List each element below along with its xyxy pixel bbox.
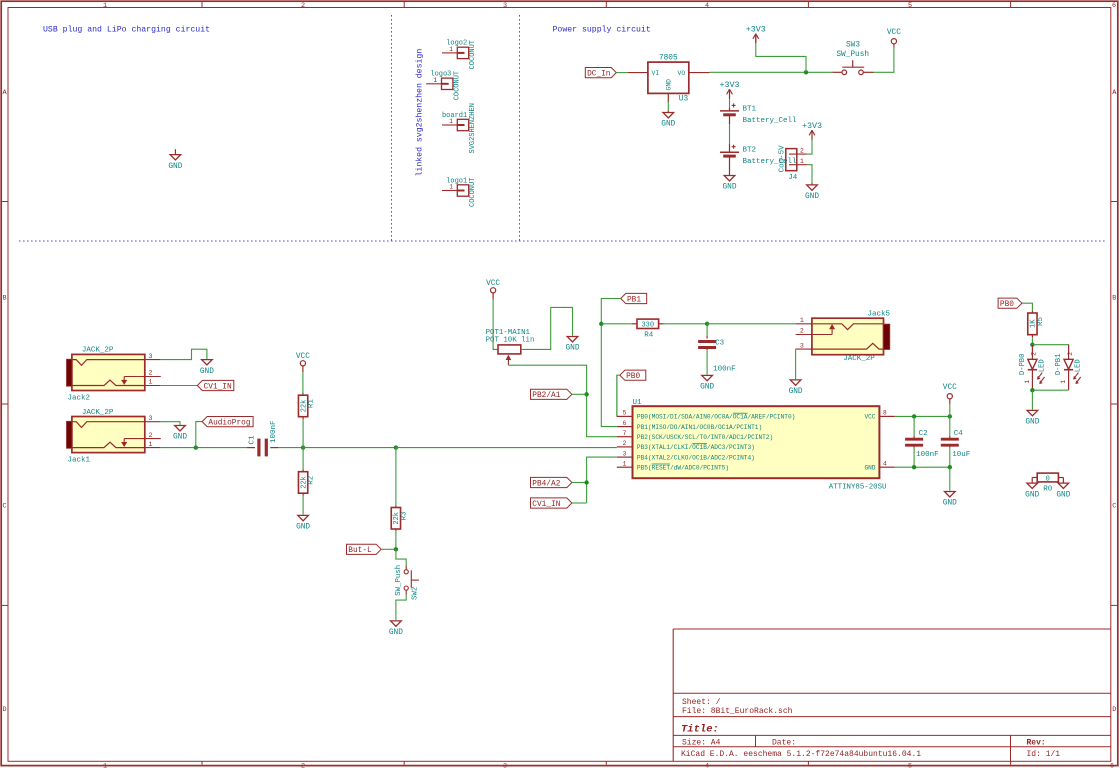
wire C3 to GND — [706, 350, 708, 375]
junction R4 node — [599, 322, 603, 326]
wire PB0 to R5 — [1022, 303, 1033, 311]
capacitor C3 100nF — [706, 324, 708, 336]
wire Jack1 pin3 to GND — [161, 422, 180, 425]
pin 2 of U1 (PB3) — [617, 446, 633, 448]
svg-text:+3V3: +3V3 — [802, 121, 822, 131]
svg-text:VCC: VCC — [296, 353, 310, 361]
svg-text:R0: R0 — [1043, 486, 1053, 494]
svg-text:3: 3 — [800, 342, 804, 349]
battery BT2 Battery_Cell — [720, 151, 739, 153]
svg-text:SVG2SHENZHEN: SVG2SHENZHEN — [469, 103, 477, 153]
switch SW2 SW_Push — [396, 549, 406, 565]
svg-text:1: 1 — [103, 2, 107, 10]
svg-text:PB4(XTAL2/CLKO/OC1B/ADC2/PCINT: PB4(XTAL2/CLKO/OC1B/ADC2/PCINT4) — [637, 454, 755, 461]
svg-text:3: 3 — [503, 2, 507, 10]
svg-text:4: 4 — [705, 2, 709, 10]
dashed section divider horizontal — [19, 240, 1107, 242]
pin 3 of U1 (PB4) — [617, 456, 633, 458]
svg-text:1: 1 — [800, 158, 804, 165]
junction But-L node — [394, 547, 398, 551]
wire BT1 to BT2 — [729, 115, 731, 124]
wire R1/R2 node to R3 node — [303, 447, 396, 449]
svg-text:6: 6 — [1110, 763, 1114, 768]
power symbol VCC (R1) — [300, 361, 305, 366]
overline RESET on U1 pin PB5 — [652, 463, 670, 465]
ground GND (U3) — [667, 111, 669, 113]
svg-text:LED: LED — [1038, 359, 1046, 372]
junction PB4/A2 node — [584, 480, 588, 484]
global label CV1_IN (bottom) — [531, 498, 572, 508]
svg-text:PB2/A1: PB2/A1 — [532, 392, 560, 400]
svg-text:GND: GND — [943, 500, 957, 508]
svg-text:Rev:: Rev: — [1027, 739, 1046, 748]
svg-text:logo1: logo1 — [446, 177, 467, 185]
junction C3 node — [705, 322, 709, 326]
svg-text:GND: GND — [296, 524, 310, 532]
overline OC1B on U1 pin PB3 — [692, 443, 707, 445]
svg-text:COCONUT: COCONUT — [469, 178, 477, 207]
svg-text:GND: GND — [789, 388, 803, 396]
svg-text:2: 2 — [800, 147, 804, 154]
global label AudioProg — [202, 417, 253, 427]
wire +3V3 to BT1 — [729, 98, 731, 108]
svg-text:PB1: PB1 — [627, 296, 641, 304]
svg-text:PB5(RESET/dW/ADC0/PCINT5): PB5(RESET/dW/ADC0/PCINT5) — [637, 465, 729, 472]
resistor R5 1K — [1028, 313, 1037, 335]
svg-text:C2: C2 — [919, 430, 928, 438]
svg-text:Con-5V: Con-5V — [778, 145, 786, 173]
ground GND (LEDs) — [1027, 410, 1038, 415]
svg-text:0: 0 — [1046, 475, 1050, 483]
svg-text:Jack1: Jack1 — [68, 456, 91, 464]
wire Jack2 pin3 to GND — [161, 349, 207, 359]
svg-text:C: C — [2, 503, 6, 511]
svg-text:C3: C3 — [715, 340, 725, 348]
ground GND (R2) — [298, 515, 309, 520]
pin 1 of U1 (PB5) — [617, 466, 633, 468]
svg-text:C1: C1 — [249, 435, 257, 445]
svg-text:JACK_2P: JACK_2P — [82, 347, 114, 355]
wire VCC to R1 — [302, 366, 304, 372]
svg-text:PB0: PB0 — [626, 373, 640, 381]
svg-text:D: D — [1112, 706, 1116, 714]
svg-text:PB4/A2: PB4/A2 — [532, 480, 560, 488]
wire U1 VCC to C2 C4 VCC — [895, 415, 950, 417]
wire node to R4 — [601, 323, 632, 325]
ground GND (USB section) — [174, 149, 176, 154]
svg-text:2: 2 — [301, 763, 305, 768]
logo component board1 (SVG2SHENZHEN) — [442, 124, 457, 126]
svg-text:Date:: Date: — [772, 739, 796, 748]
svg-text:Power supply circuit: Power supply circuit — [553, 24, 651, 34]
svg-text:PB1(MISO/DO/AIN1/OC0B/OC1A/PCI: PB1(MISO/DO/AIN1/OC0B/OC1A/PCINT1) — [637, 424, 762, 431]
wire J4 pin1 to GND — [807, 165, 812, 183]
svg-text:1: 1 — [800, 317, 804, 324]
svg-text:100nF: 100nF — [713, 365, 736, 373]
svg-text:8: 8 — [883, 410, 887, 417]
svg-text:7: 7 — [623, 430, 627, 437]
svg-text:4: 4 — [883, 460, 887, 467]
svg-text:2: 2 — [149, 370, 153, 377]
svg-text:GND: GND — [1025, 419, 1039, 427]
svg-text:B: B — [2, 295, 6, 303]
svg-text:GND: GND — [389, 629, 403, 637]
wire SW2 to GND — [405, 590, 407, 594]
svg-text:JACK_2P: JACK_2P — [82, 409, 114, 417]
svg-text:SW3: SW3 — [846, 41, 860, 49]
pin 1 of J4 — [789, 164, 807, 166]
junction R3 node — [394, 445, 398, 449]
svg-text:GND: GND — [1056, 491, 1070, 499]
svg-text:3: 3 — [623, 450, 627, 457]
svg-text:GND: GND — [666, 79, 673, 91]
svg-text:VCC: VCC — [864, 414, 875, 421]
logo component logo1 (COCONUT) — [442, 190, 457, 192]
svg-text:2: 2 — [1067, 352, 1074, 356]
svg-text:GND: GND — [805, 193, 819, 201]
svg-text:2: 2 — [800, 328, 804, 335]
svg-text:6: 6 — [623, 420, 627, 427]
svg-text:board1: board1 — [442, 112, 467, 120]
svg-text:Jack2: Jack2 — [68, 394, 91, 402]
svg-text:GND: GND — [864, 465, 875, 472]
ground GND (C3) — [702, 375, 713, 380]
svg-text:R2: R2 — [308, 476, 316, 485]
svg-text:PB0: PB0 — [1000, 301, 1014, 309]
ground GND (SW2) — [391, 621, 402, 626]
frame column ticks bottom — [201, 761, 203, 765]
wire POT1 right terminal to GND — [521, 307, 573, 349]
svg-text:CV1_IN: CV1_IN — [532, 501, 560, 509]
svg-text:100nF: 100nF — [270, 420, 278, 443]
svg-text:1: 1 — [1024, 380, 1031, 384]
global label PB0 (to U1) — [620, 370, 646, 380]
svg-text:+3V3: +3V3 — [719, 80, 739, 90]
junction C4 bottom — [948, 465, 952, 469]
svg-text:D-PB0: D-PB0 — [1019, 354, 1027, 376]
resistor R3 22k — [391, 508, 400, 530]
svg-text:1: 1 — [149, 379, 153, 386]
svg-text:POT1-MAIN1: POT1-MAIN1 — [486, 329, 531, 337]
svg-text:Battery_Cell: Battery_Cell — [743, 158, 798, 166]
wire PB2/A1 to node — [572, 393, 587, 395]
pin GND of U3 — [667, 93, 669, 102]
pin 7 of U1 (PB2) — [617, 436, 633, 438]
svg-text:linked svg2shenzhen design: linked svg2shenzhen design — [415, 49, 425, 177]
svg-text:1: 1 — [149, 441, 153, 448]
svg-text:5: 5 — [908, 2, 912, 10]
svg-text:DC_In: DC_In — [587, 71, 610, 79]
wire +3V3 to VO net — [756, 43, 806, 73]
ground GND (U1 decoupling) — [945, 492, 956, 497]
svg-text:GND: GND — [200, 368, 214, 376]
svg-text:3: 3 — [503, 763, 507, 768]
svg-text:SW_Push: SW_Push — [836, 51, 869, 59]
svg-text:But-L: But-L — [348, 547, 372, 555]
wire LED node to GND — [1031, 390, 1033, 410]
frame row ticks right — [1111, 201, 1118, 203]
svg-text:2: 2 — [1031, 352, 1038, 356]
svg-text:C4: C4 — [954, 430, 964, 438]
pin VO of U3 — [689, 72, 710, 74]
svg-text:GND: GND — [565, 345, 579, 353]
svg-text:J4: J4 — [788, 174, 798, 182]
frame column ticks top — [201, 1, 203, 7]
svg-text:GND: GND — [700, 384, 714, 392]
svg-text:B: B — [1112, 295, 1116, 303]
svg-text:1: 1 — [623, 460, 627, 467]
connector J4 Con-5V body — [786, 149, 797, 171]
svg-text:Sheet: /: Sheet: / — [682, 698, 721, 707]
svg-text:KiCad E.D.A. eeschema 5.1.2-f: KiCad E.D.A. eeschema 5.1.2-f72e74a84ubu… — [681, 750, 921, 759]
wire Jack1 pin1 main audio net — [161, 447, 247, 449]
svg-text:Battery_Cell: Battery_Cell — [743, 117, 798, 125]
svg-text:D-PB1: D-PB1 — [1055, 354, 1063, 376]
pin 5 of U1 (PB0) — [617, 415, 633, 417]
junction +3V3 on VO net — [804, 70, 808, 74]
svg-text:D: D — [2, 706, 6, 714]
junction C2 top — [912, 414, 916, 418]
global label PB1 — [621, 293, 647, 303]
junction C2 bottom — [912, 465, 916, 469]
wire But-L to node — [381, 548, 396, 550]
resistor R1 22k — [298, 395, 307, 417]
svg-text:ATTINY85-20SU: ATTINY85-20SU — [829, 483, 887, 491]
svg-text:SW2: SW2 — [412, 587, 420, 600]
pin 2 of J4 — [789, 153, 807, 155]
svg-text:5: 5 — [623, 410, 627, 417]
svg-text:R3: R3 — [400, 511, 408, 521]
svg-text:2: 2 — [301, 2, 305, 10]
capacitor C2 100nF — [913, 416, 915, 436]
ground GND (Jack2) — [202, 360, 213, 365]
LED D-PB1 — [1068, 345, 1070, 360]
wire R5 to LED node — [1031, 335, 1033, 337]
junction C4 top — [948, 414, 952, 418]
svg-text:C: C — [1112, 503, 1116, 511]
wire node to Jack5 pin1 — [707, 323, 796, 325]
svg-text:2: 2 — [149, 432, 153, 439]
svg-text:PB3(XTAL1/CLKI/OC1B/ADC3/PCINT: PB3(XTAL1/CLKI/OC1B/ADC3/PCINT3) — [637, 444, 755, 451]
wire Jack2 pin1 to CV1_IN — [161, 385, 198, 387]
svg-text:6: 6 — [1112, 2, 1116, 10]
ground GND (Jack1) — [175, 426, 186, 431]
junction PB2/A1 node — [584, 392, 588, 396]
wire SW3 to VCC — [874, 48, 894, 73]
global label DC_In — [585, 68, 616, 78]
wire PB0 to U1 pin5 — [617, 375, 620, 416]
svg-text:7805: 7805 — [659, 54, 678, 62]
svg-text:GND: GND — [661, 121, 675, 129]
capacitor C4 10uF — [949, 416, 951, 436]
pin 6 of U1 (PB1) — [617, 426, 633, 428]
svg-text:3: 3 — [149, 353, 153, 360]
global label PB4/A2 — [531, 477, 572, 487]
junction AudioProg node — [194, 445, 198, 449]
junction LED top node — [1030, 343, 1034, 347]
svg-text:Jack5: Jack5 — [868, 310, 891, 318]
title block outline — [673, 628, 1111, 630]
wire LED top node across — [1032, 345, 1068, 347]
wire C1 to R1/R2 node — [278, 447, 303, 449]
wire Jack5 pin3 to GND — [795, 349, 797, 379]
ground GND (Jack5) — [790, 380, 801, 385]
svg-text:Title:: Title: — [681, 724, 719, 736]
power symbol VCC (POT1) — [491, 288, 496, 293]
svg-text:1: 1 — [103, 763, 107, 768]
frame row ticks left — [1, 201, 8, 203]
ground GND (POT1) — [567, 337, 578, 342]
wire junction to AudioProg label — [196, 422, 202, 448]
svg-text:+3V3: +3V3 — [746, 24, 766, 34]
svg-text:GND: GND — [1025, 491, 1039, 499]
svg-text:USB plug and LiPo charging cir: USB plug and LiPo charging circuit — [43, 24, 210, 34]
wire POT1 wiper to PB2 net — [508, 365, 616, 437]
svg-text:4: 4 — [705, 763, 709, 768]
svg-text:10uF: 10uF — [952, 451, 970, 459]
svg-text:R4: R4 — [644, 332, 654, 340]
dashed section divider vertical left — [391, 15, 393, 241]
junction LED bottom node — [1030, 388, 1034, 392]
svg-text:3: 3 — [149, 415, 153, 422]
svg-text:PB2(SCK/USCK/SCL/T0/INT0/ADC1/: PB2(SCK/USCK/SCL/T0/INT0/ADC1/PCINT2) — [637, 434, 773, 441]
wire J4 pin2 to +3V3 — [807, 140, 812, 155]
wire U1 GND to C2 C4 GND — [895, 466, 950, 468]
svg-text:R1: R1 — [308, 399, 316, 409]
logo component logo3 (COCONUT) — [426, 83, 441, 85]
svg-text:Size: A4: Size: A4 — [682, 739, 721, 748]
wire VO to switch SW3 — [710, 71, 833, 73]
regulator U3 7805 body — [648, 62, 689, 93]
ground GND (R0 right) — [1058, 477, 1063, 479]
svg-text:AudioProg: AudioProg — [208, 420, 250, 428]
pin VI of U3 — [628, 72, 648, 74]
svg-text:5: 5 — [908, 763, 912, 768]
svg-text:LED: LED — [1075, 359, 1083, 372]
svg-text:GND: GND — [173, 434, 187, 442]
resistor R2 22k — [298, 472, 307, 494]
wire CV1_IN to node — [572, 502, 587, 504]
svg-text:logo2: logo2 — [446, 40, 467, 48]
svg-text:GND: GND — [168, 163, 182, 171]
global label But-L — [347, 544, 382, 554]
svg-text:VO: VO — [678, 70, 686, 77]
svg-text:R5: R5 — [1037, 317, 1045, 327]
wire node down to R3 — [395, 448, 397, 506]
svg-text:POT 10K lin: POT 10K lin — [486, 337, 535, 345]
svg-text:logo3: logo3 — [430, 71, 451, 79]
wire R3 to But-L node — [395, 529, 397, 531]
wire DC_In to U3 VI — [616, 72, 628, 74]
overline OC1A on U1 pin PB0 — [733, 412, 748, 414]
wire R3 node to U1 PB3 — [396, 447, 617, 449]
svg-text:VI: VI — [652, 70, 660, 77]
svg-text:2: 2 — [623, 440, 627, 447]
svg-text:COCONUT: COCONUT — [469, 40, 477, 69]
global label PB0 (LED) — [998, 298, 1022, 308]
logo component logo2 (COCONUT) — [442, 52, 457, 54]
svg-text:330: 330 — [641, 322, 654, 330]
svg-text:U3: U3 — [679, 96, 689, 104]
wire LED bottoms joined — [1032, 389, 1068, 391]
svg-text:VCC: VCC — [887, 29, 901, 37]
svg-text:VCC: VCC — [943, 384, 957, 392]
wire U3 GND down — [667, 102, 669, 111]
svg-text:BT1: BT1 — [743, 105, 757, 113]
resistor R0 0 — [1037, 473, 1058, 482]
wire R1 to node — [302, 417, 304, 419]
ground GND (battery) — [729, 156, 731, 175]
power symbol VCC (U1) — [947, 394, 952, 399]
dashed section divider vertical right — [519, 15, 521, 241]
power symbol VCC (after SW3) — [893, 44, 895, 48]
svg-text:File: 8Bit_EuroRack.sch: File: 8Bit_EuroRack.sch — [682, 707, 793, 716]
wire R4 to C3/Jack5 node — [659, 323, 664, 325]
wire node to R2 — [302, 448, 304, 470]
svg-text:PB0(MOSI/DI/SDA/AIN0/OC0A/OC1A: PB0(MOSI/DI/SDA/AIN0/OC0A/OC1A/AREF/PCIN… — [637, 414, 795, 421]
svg-text:BT2: BT2 — [743, 147, 757, 155]
svg-text:CV1_IN: CV1_IN — [204, 383, 232, 391]
wire to GND below C4 — [949, 467, 951, 491]
svg-text:GND: GND — [722, 184, 736, 192]
battery BT1 Battery_Cell — [729, 108, 731, 111]
global label CV1_IN (Jack2) — [197, 380, 234, 390]
svg-text:JACK_2P: JACK_2P — [843, 355, 875, 363]
junction R1/R2 node — [301, 445, 305, 449]
wire R2 to GND — [302, 493, 304, 495]
svg-text:100nF: 100nF — [916, 451, 939, 459]
LED D-PB0 — [1031, 345, 1033, 360]
svg-text:SW_Push: SW_Push — [395, 565, 403, 596]
ground GND (J4) — [811, 183, 813, 185]
resistor R4 330 — [637, 319, 659, 328]
svg-text:1: 1 — [1060, 380, 1067, 384]
capacitor C1 100nF — [247, 447, 255, 449]
wire PB1 to R4 net and U1 PB1 — [601, 299, 620, 427]
svg-text:Id: 1/1: Id: 1/1 — [1027, 750, 1061, 759]
wire PB4/A2 net to U1 PB4 — [572, 482, 587, 484]
svg-text:COCONUT: COCONUT — [453, 71, 461, 100]
global label PB2/A1 — [531, 389, 572, 399]
ground GND (R0 left) — [1032, 477, 1037, 479]
wire VCC to POT1 — [492, 293, 494, 299]
svg-text:VCC: VCC — [486, 280, 500, 288]
